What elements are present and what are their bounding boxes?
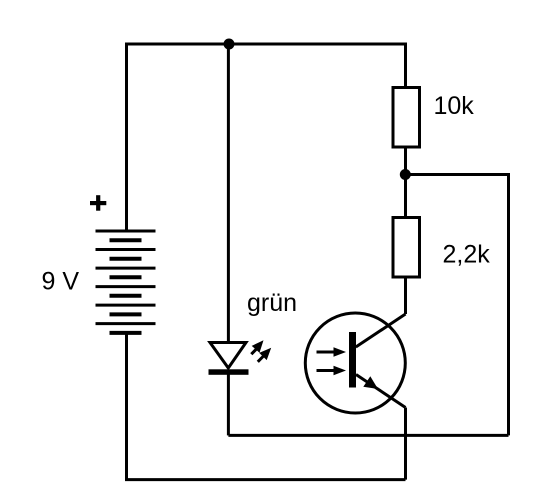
wire LED branch vertical <box>227 44 230 343</box>
wire LED cathode down <box>227 374 230 435</box>
light arrow 1 into phototransistor <box>317 351 336 354</box>
battery B1 9V plates <box>96 231 156 333</box>
battery plus sign <box>90 195 106 211</box>
node junction dot at top rail <box>224 39 235 50</box>
resistor R1 10k body <box>393 88 420 148</box>
phototransistor T1 emitter arrowhead <box>363 376 378 389</box>
phototransistor T1 base plate <box>349 332 356 388</box>
svg-text:10k: 10k <box>434 92 475 120</box>
LED D1 cathode bar <box>209 369 249 375</box>
svg-text:grün: grün <box>247 289 297 317</box>
node junction dot voltage divider <box>400 169 411 180</box>
wire between 10k and 2,2k <box>404 148 407 216</box>
LED light arrow 2 <box>258 356 264 362</box>
phototransistor T1 emitter line <box>356 375 406 408</box>
wire divider node to right rail <box>405 175 508 436</box>
wire 2,2k bottom lead to collector corner <box>404 279 407 315</box>
phototransistor T1 body circle <box>305 313 405 413</box>
wire mid rail LED to right rail <box>228 434 508 437</box>
wire top rail from battery plus to 10k <box>127 44 406 231</box>
svg-text:9 V: 9 V <box>42 268 80 296</box>
svg-text:2,2k: 2,2k <box>443 241 491 269</box>
phototransistor T1 collector line <box>356 314 406 347</box>
wire bottom rail to battery minus <box>127 333 406 480</box>
resistor R2 2,2k body <box>393 218 420 278</box>
LED light arrow 1 <box>251 349 256 354</box>
light arrow 2 into phototransistor <box>317 369 336 372</box>
LED D1 triangle <box>210 343 246 369</box>
wire emitter lead down <box>404 408 407 480</box>
